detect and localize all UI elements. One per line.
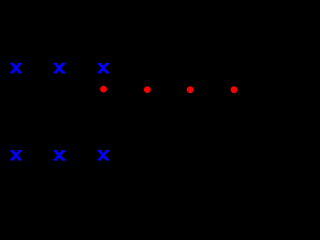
pole X1 (top row, col 1) bbox=[10, 63, 21, 74]
zero Z1 (dot row, col 3) bbox=[100, 86, 107, 93]
zero Z4 (dot row, col 6) bbox=[231, 86, 238, 93]
pole X6 (bottom row, col 3) bbox=[98, 150, 109, 161]
pole X3 (top row, col 3) bbox=[98, 63, 109, 74]
zero Z3 (dot row, col 5) bbox=[187, 86, 194, 93]
pole X4 (bottom row, col 1) bbox=[10, 150, 21, 161]
pole X2 (top row, col 2) bbox=[54, 63, 65, 74]
pole X5 (bottom row, col 2) bbox=[54, 150, 65, 161]
zero Z2 (dot row, col 4) bbox=[144, 86, 151, 93]
